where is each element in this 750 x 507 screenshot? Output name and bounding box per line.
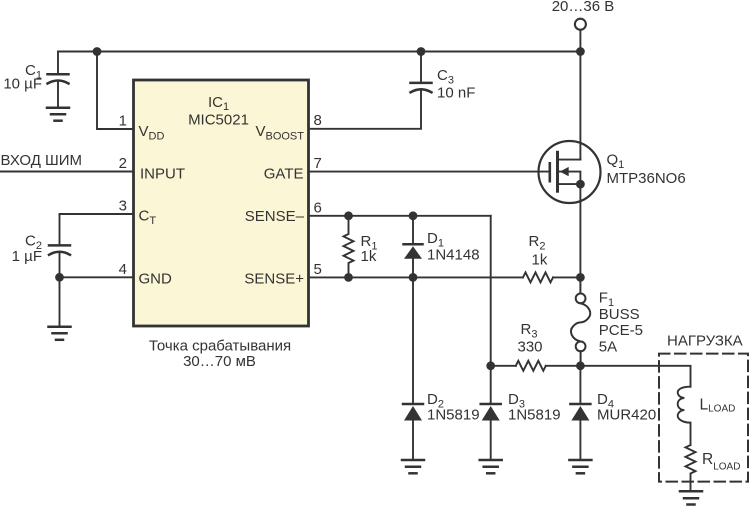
wire INPUT pin2 [0, 171, 134, 173]
junction R1 top [344, 211, 353, 220]
junction D1 bottom [409, 273, 418, 282]
junction F1 top [576, 273, 585, 282]
ground C2 [49, 327, 71, 340]
svg-text:4: 4 [119, 261, 127, 278]
wire load node to box [580, 366, 690, 387]
junction F1 bottom [576, 361, 585, 370]
wire terminal drop [579, 30, 581, 52]
junction bus/C3 [417, 47, 426, 56]
svg-text:GATE: GATE [264, 165, 304, 182]
op-amp IC1 box [134, 80, 309, 326]
ground load [680, 491, 702, 504]
svg-text:LLOAD: LLOAD [700, 397, 736, 415]
svg-text:PCE-5: PCE-5 [599, 322, 643, 339]
svg-text:Q1: Q1 [607, 152, 625, 172]
junction bus/C1 [93, 47, 102, 56]
diode D3 [481, 403, 501, 460]
svg-text:R2: R2 [529, 233, 546, 253]
svg-text:НАГРУЗКА: НАГРУЗКА [667, 333, 743, 350]
svg-text:Точка срабатывания: Точка срабатывания [149, 338, 291, 355]
svg-text:1k: 1k [532, 252, 548, 269]
svg-text:BUSS: BUSS [599, 306, 640, 323]
svg-text:1N5819: 1N5819 [508, 407, 561, 424]
junction R3 left [486, 361, 495, 370]
svg-text:SENSE+: SENSE+ [244, 270, 304, 287]
diode D2 [403, 277, 423, 459]
junction D1 top [409, 211, 418, 220]
inductor L_LOAD [678, 387, 691, 445]
svg-text:5: 5 [314, 261, 322, 278]
svg-text:3: 3 [119, 198, 127, 215]
wire GATE pin7 [309, 171, 549, 173]
svg-text:MIC5021: MIC5021 [188, 112, 249, 129]
junction R1 bottom [344, 273, 353, 282]
wire SENSE- pin6 [309, 215, 491, 217]
fuse F1 [571, 277, 590, 365]
transistor Q1 [539, 52, 601, 278]
wire SENSE- drop [490, 216, 492, 403]
svg-text:20…36 В: 20…36 В [552, 0, 615, 15]
svg-text:MTP36NO6: MTP36NO6 [607, 170, 686, 187]
svg-text:7: 7 [314, 155, 322, 172]
ground D3 [480, 460, 502, 473]
resistor R2 [523, 272, 553, 282]
svg-text:INPUT: INPUT [140, 165, 185, 182]
diode D4 [570, 366, 590, 460]
svg-text:10 µF: 10 µF [3, 76, 42, 93]
capacitor C1 [48, 52, 69, 108]
svg-text:GND: GND [139, 270, 173, 287]
svg-text:1N5819: 1N5819 [427, 407, 480, 424]
junction bus/drain [576, 47, 585, 56]
diode D1 [404, 216, 423, 278]
svg-text:RLOAD: RLOAD [702, 451, 740, 473]
wire VBOOST pin8 to C3 [309, 91, 422, 129]
wire VDD pin1 [97, 52, 134, 130]
svg-text:MUR420: MUR420 [597, 407, 656, 424]
wire GND drop [59, 277, 61, 326]
wire R2 to source node [553, 276, 580, 278]
svg-text:2: 2 [119, 155, 127, 172]
svg-text:1N4148: 1N4148 [427, 247, 480, 264]
junction GND node [55, 273, 64, 282]
wire SENSE+ pin5 [309, 276, 524, 278]
svg-text:1k: 1k [361, 248, 377, 265]
svg-text:ВХОД ШИМ: ВХОД ШИМ [1, 152, 83, 169]
svg-text:1 µF: 1 µF [12, 248, 42, 265]
resistor R_LOAD [686, 445, 696, 491]
load box dashed [659, 354, 748, 482]
capacitor C2 [49, 214, 70, 277]
svg-text:SENSE–: SENSE– [245, 208, 305, 225]
capacitor C3 [411, 52, 432, 93]
svg-text:330: 330 [518, 339, 543, 356]
terminal 20...36 V [575, 19, 586, 30]
wire supply bus [58, 51, 580, 53]
svg-text:5A: 5A [599, 339, 617, 356]
svg-text:6: 6 [314, 200, 322, 217]
svg-text:1: 1 [119, 113, 127, 130]
ground C1 [47, 108, 69, 121]
resistor R3 [491, 361, 581, 371]
svg-text:30…70 мВ: 30…70 мВ [183, 353, 256, 370]
wire GND pin4 [60, 276, 134, 278]
ground D4 [569, 460, 591, 473]
resistor R1 [344, 216, 354, 278]
ground D2 [402, 460, 424, 473]
svg-text:8: 8 [314, 112, 322, 129]
wire CT pin3 [60, 213, 134, 215]
svg-text:10 nF: 10 nF [437, 85, 475, 102]
